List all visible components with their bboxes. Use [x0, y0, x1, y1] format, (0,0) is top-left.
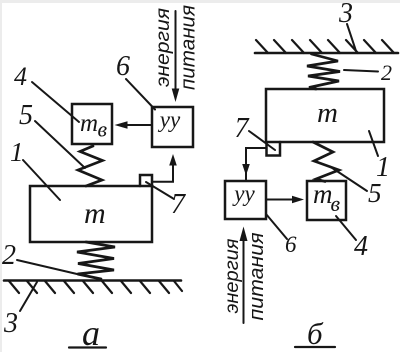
leader 2 right — [344, 70, 378, 72]
leader 3 right — [347, 24, 356, 51]
svg-text:3: 3 — [338, 0, 353, 29]
wire: power feed into UU1 — [175, 11, 177, 95]
node: arrowhead up — [169, 154, 177, 166]
svg-text:уу: уу — [158, 107, 181, 132]
sensor 7 notch right — [267, 142, 281, 156]
svg-text:энергия: энергия — [153, 8, 174, 87]
svg-text:в: в — [331, 191, 341, 216]
svg-text:m: m — [317, 97, 338, 129]
control unit UU1 box (6) — [152, 107, 193, 147]
svg-text:4: 4 — [354, 231, 368, 262]
control unit UU2 box (6) — [225, 181, 266, 219]
svg-text:питания: питания — [178, 5, 200, 90]
leader 5 — [35, 121, 85, 168]
svg-text:а: а — [82, 313, 100, 352]
wire: notch to UU1 with up arrow — [152, 163, 173, 182]
leader 3 — [20, 282, 37, 311]
node: arrowhead right fig — [292, 196, 304, 204]
leader 7 right — [249, 131, 275, 150]
leader 6 right — [266, 214, 287, 239]
node: power arrowhead down — [172, 89, 180, 103]
leader 5 right — [330, 167, 367, 192]
svg-text:7: 7 — [235, 113, 250, 144]
spring 2 between ceiling and m — [307, 54, 340, 89]
svg-text:m: m — [84, 197, 106, 230]
sensor 7 notch — [140, 175, 152, 186]
vibrator mass mB box right (4) — [307, 181, 346, 220]
svg-text:питания: питания — [246, 232, 268, 320]
caption b underline — [295, 346, 335, 348]
svg-text:m: m — [80, 110, 98, 137]
svg-text:5: 5 — [368, 178, 382, 208]
svg-text:в: в — [98, 117, 108, 142]
wire: power feed up into UU2 — [243, 235, 245, 323]
wire: UU1 to mB arrow — [127, 124, 152, 126]
svg-text:7: 7 — [171, 189, 186, 220]
svg-text:б: б — [307, 316, 324, 351]
leader 1 right — [369, 131, 378, 156]
node: power arrowhead up right fig — [240, 227, 248, 242]
leader 4 right — [336, 216, 356, 240]
svg-text:2: 2 — [381, 60, 392, 85]
wire: UU2 to mB arrow — [266, 199, 294, 201]
ceiling hatching — [256, 40, 394, 53]
leader 1 — [23, 160, 60, 200]
mass m box right (1) — [266, 89, 384, 142]
wire: notch right to UU2 with down arrow — [246, 148, 267, 180]
ground hatching — [9, 281, 182, 293]
svg-text:2: 2 — [2, 240, 16, 271]
spring 2 between m and ground — [77, 242, 115, 279]
spring 5 between mB and m — [78, 146, 103, 186]
svg-text:6: 6 — [285, 232, 297, 257]
node: arrowhead down right fig — [242, 164, 250, 176]
svg-text:уу: уу — [232, 181, 255, 206]
leader 6 — [126, 79, 155, 110]
vibrator mass mB box (4) — [72, 104, 112, 144]
ceiling line (3) — [255, 52, 398, 55]
svg-text:6: 6 — [116, 51, 130, 82]
node: arrowhead left — [115, 121, 128, 129]
svg-text:3: 3 — [3, 308, 18, 339]
ground line (3) — [4, 279, 181, 282]
spring 5 right between m and mB — [313, 142, 339, 182]
svg-text:1: 1 — [10, 137, 24, 167]
svg-text:энергия: энергия — [222, 239, 243, 314]
svg-text:4: 4 — [14, 62, 27, 91]
mass m box (1) — [30, 186, 152, 242]
caption a underline — [69, 346, 106, 348]
leader 2 — [17, 260, 77, 274]
leader 7 — [146, 182, 174, 199]
svg-text:5: 5 — [19, 100, 33, 131]
leader 4 — [32, 82, 79, 122]
